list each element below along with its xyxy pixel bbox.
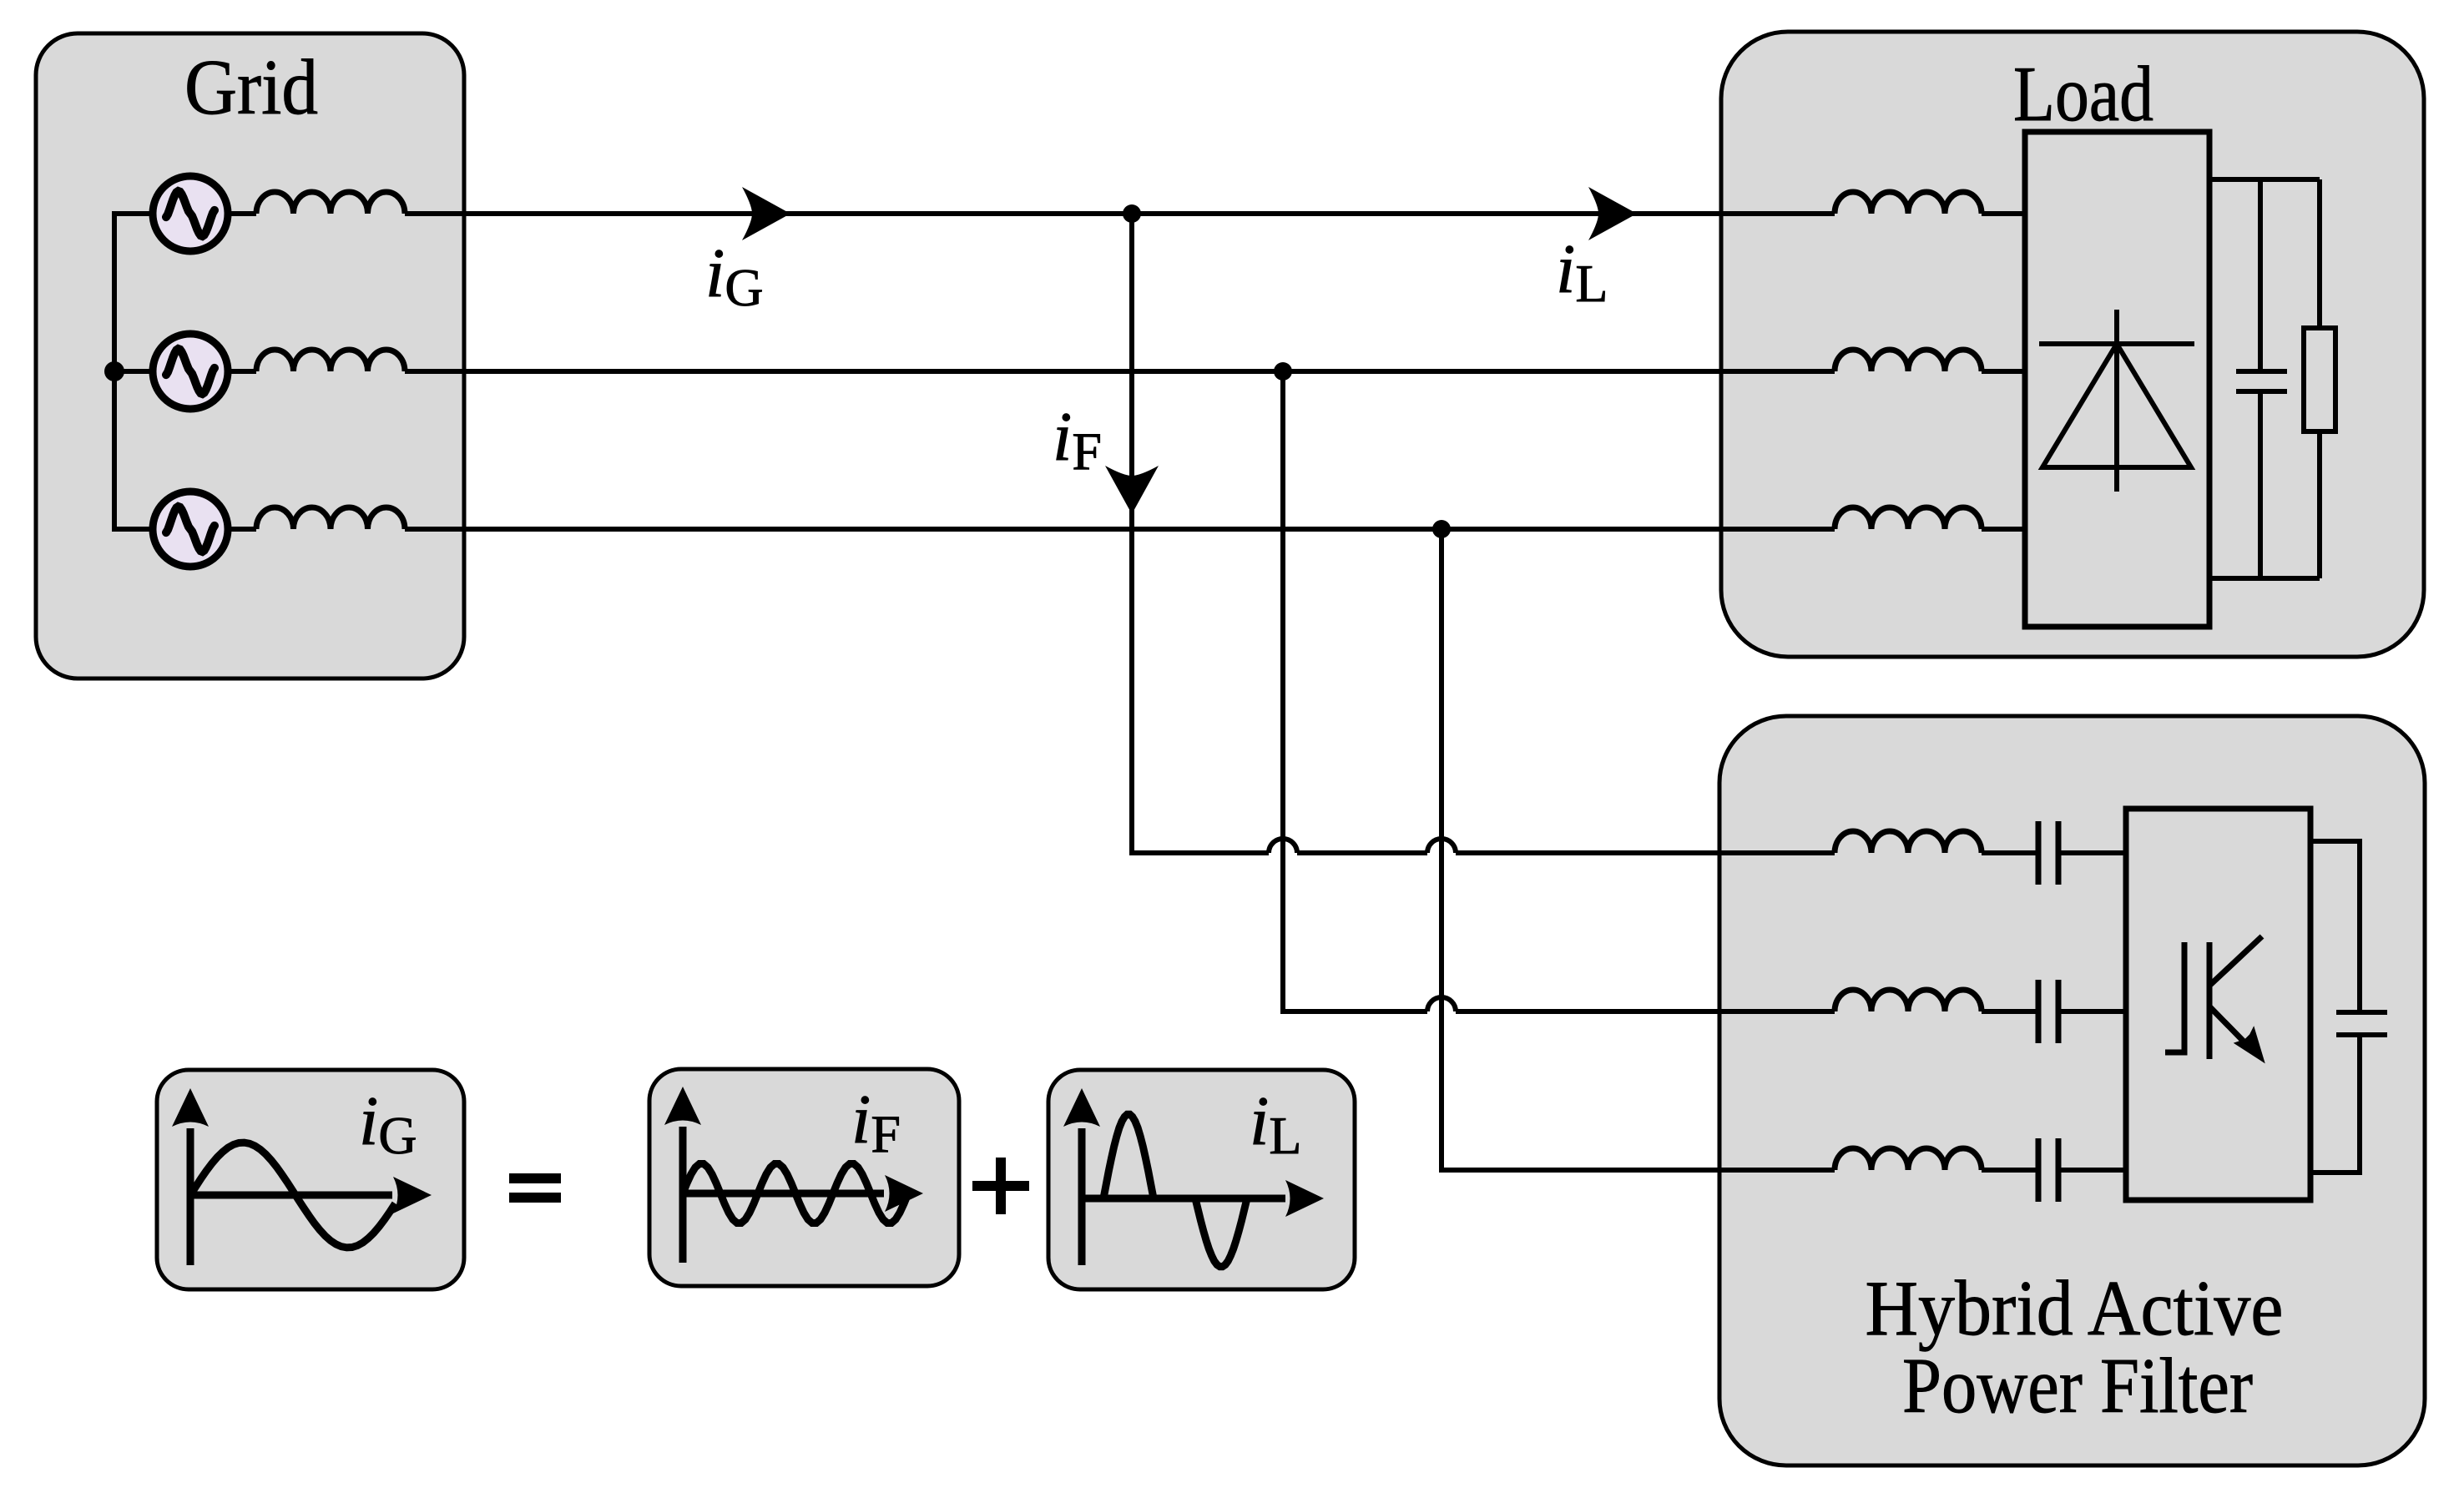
- svg-text:Hybrid Active: Hybrid Active: [1866, 1265, 2284, 1352]
- grid inductor Lb: [256, 350, 405, 371]
- iL y-axis: [1078, 1128, 1086, 1265]
- arrow iF down on tap a: [1105, 466, 1159, 514]
- thyristor symbol: triangle: [2042, 344, 2191, 467]
- AC source Vb: [153, 334, 228, 409]
- hapf capacitor c: [2038, 1138, 2058, 1202]
- grid box: [36, 33, 464, 678]
- load resistor R: [2304, 328, 2335, 431]
- igbt symbol: emitter with arrow: [2209, 1006, 2264, 1062]
- svg-text:iG: iG: [705, 235, 764, 317]
- hapf feed a with hops: [1297, 850, 1835, 855]
- iF x-axis: [683, 1190, 884, 1198]
- hop b over tap c: [1427, 997, 1456, 1011]
- node phase c tap: [1432, 520, 1451, 538]
- grid inductor Lc: [256, 507, 405, 529]
- iG sine wave: [190, 1142, 396, 1248]
- waveform box iF: [649, 1069, 959, 1286]
- iF y-axis: [679, 1127, 687, 1263]
- hapf capacitor a: [2038, 821, 2058, 885]
- wire hapf inductor a to capacitor: [1982, 850, 2038, 855]
- dc-link capacitor plates: [2336, 1012, 2387, 1035]
- dc-link bottom wire: [2310, 1035, 2360, 1173]
- AC source Vc: [153, 492, 228, 567]
- load box: [1721, 32, 2424, 657]
- tap wire c down: [1442, 529, 1835, 1170]
- iG x-axis: [190, 1192, 392, 1199]
- svg-text:iF: iF: [1053, 398, 1102, 481]
- dc top rail: [2209, 177, 2320, 182]
- wire hapf capacitor b to inverter: [2058, 1009, 2126, 1014]
- grid left bus wire: [114, 214, 153, 529]
- wire hapf capacitor a to inverter: [2058, 850, 2126, 855]
- wire phase a grid to load: [405, 211, 1835, 216]
- wire inductor c to rectifier: [1982, 527, 2025, 532]
- rectifier box: [2025, 132, 2209, 627]
- dc-link top wire: [2310, 841, 2360, 1012]
- waveform box iL: [1048, 1070, 1355, 1289]
- load resistor branch lower wire: [2317, 431, 2322, 578]
- svg-text:iL: iL: [1556, 230, 1608, 313]
- load resistor branch upper wire: [2317, 179, 2322, 328]
- igbt symbol: body bar: [2207, 942, 2213, 1059]
- hapf inductor phase c: [1835, 1148, 1982, 1170]
- dc capacitor branch lower wire: [2258, 391, 2263, 578]
- wire phase b grid to load: [405, 369, 1835, 374]
- tap wire b down: [1283, 371, 1427, 1011]
- igbt symbol: gate: [2165, 942, 2184, 1052]
- arrow iL on phase a: [1588, 187, 1637, 240]
- wire inductor a to rectifier: [1982, 211, 2025, 216]
- AC source Va: [153, 176, 228, 251]
- hapf inductor phase a: [1835, 831, 1982, 853]
- wire source Vb to inductor: [230, 369, 256, 374]
- hybrid active power filter box: [1719, 716, 2425, 1465]
- hapf feed b with hop: [1456, 1009, 1835, 1014]
- iF ripple wave: [683, 1164, 908, 1223]
- hop a over tap c: [1427, 839, 1456, 853]
- wire hapf inductor c to capacitor: [1982, 1168, 2038, 1173]
- load inductor phase b: [1835, 350, 1982, 371]
- wire source Va to inductor: [230, 211, 256, 216]
- load inductor phase a: [1835, 192, 1982, 214]
- svg-text:Load: Load: [2013, 51, 2153, 138]
- node phase a tap: [1123, 204, 1141, 223]
- thyristor symbol: cathode line: [2039, 341, 2194, 346]
- node phase b tap: [1274, 362, 1292, 381]
- equals sign: [509, 1178, 561, 1198]
- inverter box: [2126, 809, 2310, 1200]
- node on bus (phase b): [104, 361, 124, 381]
- dc capacitor plates: [2236, 371, 2287, 391]
- grid inductor La: [256, 192, 405, 214]
- wire bus to source Vb: [114, 369, 153, 374]
- iL x-axis: [1082, 1195, 1285, 1203]
- wire source Vc to inductor: [230, 527, 256, 532]
- thyristor symbol: vertical line: [2114, 310, 2119, 492]
- dc capacitor branch upper wire: [2258, 179, 2263, 371]
- iG y-axis: [187, 1128, 194, 1265]
- iL distorted wave: [1082, 1114, 1285, 1266]
- wire phase c grid to load: [405, 527, 1835, 532]
- hapf capacitor b: [2038, 980, 2058, 1043]
- hop a over tap b: [1269, 839, 1297, 853]
- waveform box iG: [157, 1070, 464, 1289]
- svg-text:Grid: Grid: [184, 44, 318, 131]
- wire hapf inductor b to capacitor: [1982, 1009, 2038, 1014]
- hapf inductor phase b: [1835, 990, 1982, 1011]
- wire hapf capacitor c to inverter: [2058, 1168, 2126, 1173]
- dc bottom rail: [2209, 576, 2320, 581]
- plus sign: [972, 1158, 1029, 1214]
- load inductor phase c: [1835, 507, 1982, 529]
- igbt symbol: collector: [2209, 936, 2262, 986]
- svg-text:Power Filter: Power Filter: [1902, 1343, 2253, 1430]
- tap wire a down: [1132, 214, 1269, 853]
- arrow iG on phase a: [742, 187, 790, 240]
- wire inductor b to rectifier: [1982, 369, 2025, 374]
